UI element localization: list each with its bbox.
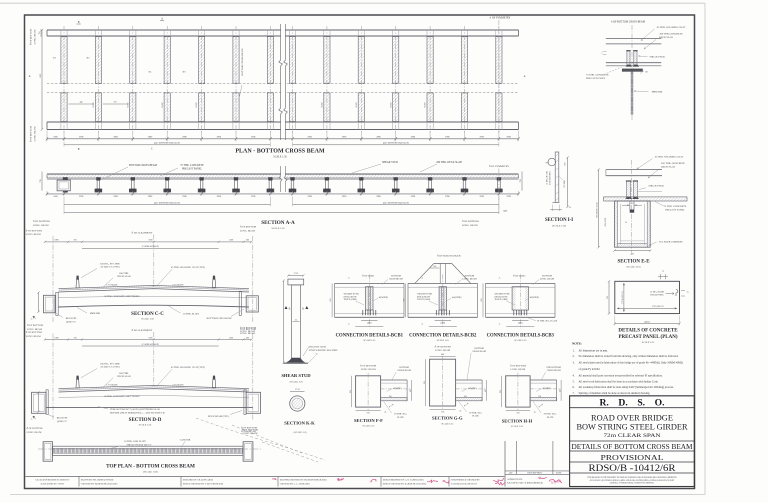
svg-text:SECTION I-I: SECTION I-I [545, 218, 573, 223]
svg-text:BOTTOM: BOTTOM [391, 275, 401, 277]
svg-text:PRECAST PANEL: PRECAST PANEL [665, 209, 685, 212]
section B-B: stud top caps [626, 50, 630, 52]
section A-A: left vertical dimension 750 [41, 172, 43, 191]
svg-text:75: 75 [662, 271, 664, 273]
title block frame [570, 396, 695, 487]
connection BCB1: left rotated dim [331, 283, 333, 317]
svg-text:15: 15 [625, 222, 627, 224]
section E-E: bottom dimension [615, 250, 651, 252]
section F-F: right dim [411, 380, 413, 401]
section A-A: break lines [279, 166, 282, 192]
plan view: small dims between ribs [69, 103, 94, 105]
svg-text:1500: 1500 [229, 337, 233, 339]
svg-text:SCALE 1:25: SCALE 1:25 [642, 341, 655, 344]
plan view: left vertical dimension [41, 30, 43, 130]
svg-text:750: 750 [516, 413, 519, 415]
svg-text:SHEAR STUD: SHEAR STUD [281, 373, 311, 378]
svg-text:BOTTOM: BOTTOM [399, 367, 408, 369]
section G-G: right dim [486, 380, 488, 401]
svg-text:AT 3000 C/C (TYP.): AT 3000 C/C (TYP.) [100, 366, 120, 369]
shear stud: head [288, 279, 304, 285]
svg-text:SHEAR STUD: SHEAR STUD [648, 185, 664, 188]
svg-text:65 THK. WEARING COAT: 65 THK. WEARING COAT [655, 156, 684, 159]
plan view: left band dimension 750 [40, 29, 42, 37]
svg-text:SECTION A-A: SECTION A-A [261, 220, 295, 226]
svg-text:BOTTOM LONG BEAM: BOTTOM LONG BEAM [207, 317, 233, 320]
svg-text:600(OUT): 600(OUT) [604, 217, 607, 226]
svg-text:BCB2: BCB2 [127, 102, 129, 107]
svg-text:DESCRIPTION: DESCRIPTION [527, 473, 542, 475]
section F-F: bottom dims [356, 410, 381, 412]
svg-text:BCB2: BCB2 [356, 102, 358, 107]
section C-C: wearing coat band [59, 285, 250, 290]
svg-text:BEAN PIN: BEAN PIN [57, 417, 68, 420]
section D-D: left height dim and A marker [38, 393, 40, 412]
svg-text:BEAN PIN: BEAN PIN [66, 317, 77, 320]
section F-F: left dim [351, 376, 353, 407]
section E-E: tube box outer [615, 201, 651, 247]
section A-A: left end cross beam box [63, 177, 68, 180]
svg-text:DATE: DATE [556, 472, 562, 475]
section G-G: bottom dims [430, 409, 456, 411]
svg-text:40(WIDE): 40(WIDE) [468, 387, 477, 390]
section E-E: precast panel band [604, 197, 687, 201]
svg-text:ℏ OF BOTTOM: ℏ OF BOTTOM [33, 219, 50, 223]
section C-C: centerlines of long beams [52, 236, 54, 322]
svg-text:ℏ OF BOTTOM: ℏ OF BOTTOM [240, 226, 257, 229]
connection BCB3: centerline [519, 274, 521, 328]
svg-text:4347 (DIVIDED EQUALLY): 4347 (DIVIDED EQUALLY) [154, 202, 180, 205]
svg-text:25: 25 [295, 319, 297, 321]
svg-text:ℏ OF BCB3: ℏ OF BCB3 [513, 273, 526, 277]
svg-text:BOTTOM LINE IS HORIZONTAL) — (: BOTTOM LINE IS HORIZONTAL) — (SEE SECTIO… [110, 411, 165, 414]
connection BCB1: beam band [335, 282, 404, 284]
svg-text:450: 450 [433, 266, 436, 268]
section I-I: lifting hook loop [548, 158, 556, 166]
top plan: centerline [38, 448, 262, 450]
svg-text:ℏ OF SYMMETRY: ℏ OF SYMMETRY [489, 164, 509, 168]
section B-B: web rib [630, 71, 632, 115]
svg-text:No dimension shall be scaled f: No dimension shall be scaled from this d… [579, 355, 679, 358]
svg-text:8MM RIB: 8MM RIB [90, 312, 100, 315]
section H-H: attached cross beam [530, 379, 557, 381]
svg-text:ROAD OVER BRIDGE: ROAD OVER BRIDGE [591, 413, 673, 422]
svg-text:PLAN - BOTTOM CROSS BEAM: PLAN - BOTTOM CROSS BEAM [235, 149, 325, 155]
svg-text:17.10: 17.10 [293, 273, 298, 275]
svg-text:SECTION G-G: SECTION G-G [432, 416, 463, 421]
svg-text:AT 3000 C/C (TYP.): AT 3000 C/C (TYP.) [100, 266, 120, 269]
svg-text:35: 35 [316, 354, 318, 356]
svg-text:B: B [78, 21, 80, 24]
precast panel: inner vertical dim [623, 283, 625, 312]
svg-text:BCB2: BCB2 [196, 102, 198, 107]
precast panel: top small dim [660, 274, 662, 279]
svg-text:SCRUTINISED & CHECKED BY: SCRUTINISED & CHECKED BY [451, 479, 480, 481]
top plan: main bar with stud texture [53, 446, 244, 455]
section E-E: center web stub [629, 201, 631, 210]
svg-text:25: 25 [631, 203, 633, 205]
svg-text:(SCALE 1:10): (SCALE 1:10) [626, 266, 640, 269]
connection BCB2: center element [439, 287, 446, 310]
svg-text:ℏ OF BCB1: ℏ OF BCB1 [362, 273, 375, 277]
svg-text:CALCULATION REGISTER NO. DESIG: CALCULATION REGISTER NO. DESIGN/CT [35, 478, 70, 481]
svg-text:TUBE SECTION OF T (ARCH) (SHUT: TUBE SECTION OF T (ARCH) (SHUTTERING SLA… [110, 408, 160, 411]
svg-text:SCALE 1:25: SCALE 1:25 [511, 425, 524, 428]
svg-text:FOR LIFTING: FOR LIFTING [550, 171, 552, 185]
svg-text:750: 750 [73, 337, 76, 339]
svg-text:65 THK. WEARING COAT: 65 THK. WEARING COAT [657, 26, 686, 29]
svg-text:BCB2: BCB2 [322, 102, 324, 107]
svg-text:900: 900 [500, 390, 502, 393]
shear stud: stem [292, 285, 301, 358]
svg-text:K: K [302, 308, 304, 311]
svg-text:ℏ OF BOTTOM: ℏ OF BOTTOM [242, 429, 259, 432]
svg-text:150: 150 [389, 396, 392, 398]
svg-text:DECK SLAB: DECK SLAB [117, 375, 131, 378]
connection BCB3: bolts [513, 310, 515, 315]
connection BCB1: centerline [368, 274, 370, 328]
svg-text:R. D. S. O.: R. D. S. O. [599, 397, 664, 408]
svg-text:SHEAR STUD: SHEAR STUD [382, 161, 398, 164]
svg-text:SCALE 1:50: SCALE 1:50 [139, 424, 152, 427]
svg-text:(400): (400) [441, 322, 446, 325]
plan view: rib ticks across bands [60, 30, 62, 36]
svg-text:C: C [151, 148, 153, 151]
svg-text:LONG. BEAM: LONG. BEAM [26, 233, 42, 236]
svg-text:ℏ OF BOTTOM: ℏ OF BOTTOM [240, 328, 257, 331]
svg-text:(SCALE 1:2): (SCALE 1:2) [290, 380, 303, 383]
svg-text:4347 (DIVIDED EQUALLY): 4347 (DIVIDED EQUALLY) [154, 142, 180, 145]
svg-text:CHECKED BY: MAHESH PRASAD (SS: CHECKED BY: MAHESH PRASAD (SSE) [81, 482, 118, 485]
svg-text:40(WIDE): 40(WIDE) [452, 296, 462, 299]
svg-text:(400): (400) [518, 322, 523, 325]
svg-text:A: A [348, 277, 350, 280]
precast panel: left dim [608, 281, 610, 313]
svg-text:STUD WELDING MACHINE: STUD WELDING MACHINE [309, 349, 338, 352]
svg-text:20 THK. SEA.: 20 THK. SEA. [394, 413, 407, 416]
section B-B: shear stud bars [627, 51, 630, 66]
svg-text:B: B [78, 148, 80, 151]
svg-text:A: A [499, 322, 501, 325]
svg-text:(SCALE 1:2): (SCALE 1:2) [294, 431, 307, 434]
svg-text:(CARRIAGEWAY): (CARRIAGEWAY) [142, 245, 160, 248]
svg-text:100 THK: 100 THK [564, 180, 566, 188]
section D-D: railing posts [76, 379, 79, 388]
svg-text:S.S.BARUAH DE/ADE TECH: S.S.BARUAH DE/ADE TECH [451, 482, 477, 485]
connection BCB2: bolts [435, 310, 437, 315]
svg-text:B.K.GUPTA FOR CE (B&S) (BRIDGE: B.K.GUPTA FOR CE (B&S) (BRIDGE) [507, 481, 543, 484]
section B-B: top flange of rib beam [622, 69, 642, 72]
svg-text:(4625): (4625) [644, 320, 650, 323]
shear stud: left dim line [283, 281, 285, 363]
section E-E: shear stud bars [627, 181, 631, 197]
svg-text:40(WIDE): 40(WIDE) [379, 296, 389, 299]
svg-text:200: 200 [246, 337, 249, 339]
svg-text:3.: 3. [573, 361, 575, 364]
connection BCB3: bottom dims [512, 320, 528, 322]
svg-text:35: 35 [569, 207, 571, 209]
svg-text:40(WIDE): 40(WIDE) [542, 387, 551, 390]
svg-text:65 THK. WEARING COAT (TYP.): 65 THK. WEARING COAT (TYP.) [171, 266, 205, 269]
section H-H: left dim [501, 376, 503, 407]
section K-K: top dimension [290, 391, 305, 393]
svg-text:50 THK. CONCRETE SHUTTERING: 50 THK. CONCRETE SHUTTERING [104, 296, 140, 298]
svg-text:1900: 1900 [54, 337, 58, 339]
signature strip frame [26, 476, 505, 478]
svg-text:of grade Fy 410/02.: of grade Fy 410/02. [579, 368, 601, 371]
svg-text:TORCH (ARM): TORCH (ARM) [417, 298, 430, 301]
svg-text:GASR RIB: GASR RIB [180, 438, 191, 441]
section I-I: hanger bar [555, 152, 559, 202]
svg-text:END BOTTOM: END BOTTOM [546, 367, 560, 369]
svg-text:PROVISIONAL: PROVISIONAL [601, 454, 664, 462]
svg-text:@500 C/C: @500 C/C [66, 322, 76, 324]
svg-text:LONG. BEAM: LONG. BEAM [462, 224, 478, 227]
svg-text:440: 440 [80, 102, 83, 104]
section E-E: stud top caps [626, 180, 631, 182]
section C-C: left height dim and A marker [38, 293, 40, 312]
svg-text:RDSO/B -10412/6R: RDSO/B -10412/6R [589, 463, 677, 474]
section A-A: break gap [281, 164, 285, 193]
section C-C: railing posts [76, 279, 79, 288]
svg-text:150: 150 [538, 396, 541, 398]
section B-B: centerline [631, 25, 633, 120]
svg-text:6.: 6. [573, 386, 575, 389]
precast panel: inner horizontal dim [617, 307, 677, 309]
svg-text:425: 425 [485, 389, 487, 392]
svg-text:20 THK. SEA.: 20 THK. SEA. [544, 413, 557, 416]
svg-text:(770) 500 C/C: (770) 500 C/C [652, 305, 665, 308]
svg-text:LONG. BEAM: LONG. BEAM [27, 431, 43, 434]
section E-E: tube box wall lines and hatch [615, 201, 618, 247]
section H-H: bottom dims [506, 410, 530, 412]
connection BCB3: beam band [486, 282, 556, 284]
svg-text:SCALE 1:25: SCALE 1:25 [437, 339, 450, 342]
section H-H: right dim [560, 380, 562, 401]
svg-text:(770 & 500 C/C): (770 & 500 C/C) [621, 291, 624, 304]
svg-text:BOTTOM: BOTTOM [465, 275, 475, 277]
svg-text:CONNECTION DETAILS-BCB3: CONNECTION DETAILS-BCB3 [487, 333, 555, 338]
svg-text:1900: 1900 [54, 240, 58, 242]
svg-text:DESIGNED BY: S.K.GUPTA (JED): DESIGNED BY: S.K.GUPTA (JED) [183, 478, 213, 481]
svg-text:DESIGN CHECKED BY: RAJESH PRA: DESIGN CHECKED BY: RAJESH PRASAD (SSE) [383, 482, 427, 485]
svg-text:DESIGN CHECKED BY: T. DES V.K: DESIGN CHECKED BY: T. DES V.KESH (DD) [183, 482, 224, 485]
svg-text:OF RAILWAY) (LUCKNOW) (INDIA).: OF RAILWAY) (LUCKNOW) (INDIA). (MILL AND… [590, 479, 675, 482]
svg-text:A: A [29, 75, 31, 78]
svg-text:10 THK. ASBL PLATE: 10 THK. ASBL PLATE [124, 440, 146, 443]
plan view: bottom long beam band [47, 121, 519, 123]
svg-text:MAIN BEAM: MAIN BEAM [389, 278, 402, 281]
svg-text:A: A [421, 322, 423, 325]
svg-text:BCB2: BCB2 [390, 102, 392, 107]
plan view: cross-beam ribs (BCB posts) [61, 26, 67, 133]
svg-text:10 THK. PLATE: 10 THK. PLATE [183, 312, 200, 315]
top plan: left end block [43, 442, 52, 462]
pink signature marks [272, 478, 276, 479]
svg-text:260 THK. DECK SLAB: 260 THK. DECK SLAB [436, 161, 462, 164]
svg-text:A: A [499, 277, 501, 280]
svg-text:A: A [161, 18, 163, 21]
svg-text:@500 C/C: @500 C/C [57, 421, 67, 423]
svg-text:40(WIDE): 40(WIDE) [393, 387, 402, 390]
svg-text:CROSS BEAM: CROSS BEAM [472, 350, 486, 353]
connection BCB2: beam band [408, 282, 478, 284]
svg-text:DRAWN BY: M/S ABHINAV TIWARI: DRAWN BY: M/S ABHINAV TIWARI [81, 478, 114, 481]
svg-text:GENERAL. WITHOUT RDSO, CONSENT: GENERAL. WITHOUT RDSO, CONSENT TO PRINTE… [610, 482, 655, 485]
svg-text:A: A [31, 317, 33, 320]
svg-text:LONG. BEAM: LONG. BEAM [26, 335, 42, 338]
section G-G: main box [430, 359, 456, 406]
section A-A: dimension rows [47, 193, 519, 195]
section K-K: stud circle [290, 396, 305, 411]
svg-text:SECTION E-E: SECTION E-E [617, 260, 650, 265]
svg-text:LONG. BEAM: LONG. BEAM [361, 368, 377, 371]
svg-text:THIS DRAWING IS THE PROPERTY O: THIS DRAWING IS THE PROPERTY OF RESEARCH… [587, 476, 677, 479]
section D-D: wearing coat band [59, 385, 250, 390]
svg-text:1500: 1500 [229, 240, 233, 242]
section I-I: bottom ticks [552, 201, 559, 203]
svg-text:750: 750 [114, 102, 117, 104]
svg-text:750: 750 [40, 179, 42, 182]
section H-H: main box [506, 376, 530, 407]
svg-text:1.: 1. [573, 350, 575, 353]
svg-text:K: K [289, 308, 291, 311]
svg-text:TORCH (ARM): TORCH (ARM) [344, 298, 357, 301]
svg-text:SCALE 1:25: SCALE 1:25 [363, 425, 376, 428]
svg-text:PRECAST PANEL: PRECAST PANEL [182, 167, 203, 170]
svg-text:TORCH (ARM): TORCH (ARM) [495, 298, 508, 301]
svg-text:ℏ OF BOTTOM: ℏ OF BOTTOM [30, 125, 33, 142]
svg-text:SCALE 1:25: SCALE 1:25 [514, 339, 527, 342]
svg-text:7500: 7500 [148, 240, 152, 242]
svg-text:ℏ OF ALIGNMENT: ℏ OF ALIGNMENT [132, 231, 153, 235]
svg-text:BOTTOM: BOTTOM [474, 348, 483, 350]
svg-text:Splicing of members shall be d: Splicing of members shall be done as sho… [579, 392, 651, 395]
section E-E: left dimensions [598, 170, 600, 248]
svg-text:750: 750 [367, 413, 370, 415]
svg-text:425: 425 [410, 389, 412, 392]
svg-text:1.7% SLOPE: 1.7% SLOPE [106, 385, 118, 387]
svg-text:DECK SLAB: DECK SLAB [117, 275, 131, 278]
svg-text:CONNECTION DETAILS-BCB1: CONNECTION DETAILS-BCB1 [336, 333, 404, 338]
plan view: divided-equally dimension row [64, 144, 270, 146]
svg-text:SECTION H-H: SECTION H-H [502, 418, 533, 423]
svg-text:BOTTOM CROSS BEAM: BOTTOM CROSS BEAM [129, 164, 158, 167]
svg-text:DRAWINGS REVISED BY: PRADEEP K: DRAWINGS REVISED BY: PRADEEP KUMAR (JED) [280, 478, 327, 481]
section A-A: deck slab band [47, 173, 519, 175]
svg-text:600: 600 [404, 299, 406, 302]
svg-text:(400): (400) [367, 322, 372, 325]
svg-text:8MM RIB: 8MM RIB [652, 91, 663, 94]
plan view: dimension row with ticks [47, 138, 519, 140]
section B-B: deck slab bottom and panel lines [606, 62, 662, 64]
svg-text:SECTION F-F: SECTION F-F [354, 418, 383, 423]
section D-D: centerlines of long beams [52, 334, 54, 420]
svg-text:4347 (DIVIDED EQUALLY): 4347 (DIVIDED EQUALLY) [383, 202, 409, 205]
svg-text:20 THK. SEA.: 20 THK. SEA. [469, 412, 482, 415]
svg-text:CROSS BEAM: CROSS BEAM [547, 369, 561, 372]
svg-text:500: 500 [607, 296, 609, 299]
svg-text:12 DIA. HOOK: 12 DIA. HOOK [650, 290, 664, 293]
svg-text:(HOLE) BLOW: (HOLE) BLOW [344, 295, 357, 298]
svg-text:600: 600 [481, 299, 483, 302]
section D-D: dashed leader diagonals [196, 418, 325, 460]
svg-text:BOTTOM: BOTTOM [542, 275, 552, 277]
svg-text:LONG. BEAM: LONG. BEAM [34, 126, 37, 142]
connection BCB1: bottom dims [361, 320, 377, 322]
svg-text:PLATE: PLATE [547, 416, 554, 419]
svg-text:A: A [348, 322, 350, 325]
precast panel: outline [615, 281, 680, 313]
svg-text:BOTTOM CROSS BEAM: BOTTOM CROSS BEAM [241, 48, 244, 76]
connection BCB3: left rotated dim [482, 283, 484, 317]
paper edge shadow [0, 2, 705, 4]
svg-text:600: 600 [330, 299, 332, 302]
svg-text:WELDED TO 8M.: WELDED TO 8M. [417, 294, 433, 296]
svg-text:ℏ OF BCB2/HANGER: ℏ OF BCB2/HANGER [437, 253, 461, 257]
notes underline [570, 395, 695, 397]
svg-text:A: A [524, 75, 526, 78]
svg-text:SHEAR STUD: SHEAR STUD [649, 56, 665, 59]
svg-text:PRECAST PANEL: PRECAST PANEL [586, 77, 606, 80]
connection BCB1: center element [366, 287, 373, 310]
section G-G: left dim [425, 359, 427, 406]
svg-text:75: 75 [687, 292, 689, 294]
svg-text:200: 200 [246, 240, 249, 242]
svg-text:SECTION K-K: SECTION K-K [284, 420, 315, 425]
svg-text:PLATE: PLATE [472, 415, 479, 418]
svg-text:All steel plates used in fabri: All steel plates used in fabrication of … [579, 361, 683, 364]
connection BCB2: centerline [442, 274, 444, 328]
shear stud: K section cut marks [285, 306, 288, 309]
svg-text:(CARRIAGEWAY): (CARRIAGEWAY) [142, 343, 160, 346]
section B-B: left small dims [603, 51, 607, 53]
section D-D: end blocks and plates [32, 392, 47, 413]
connection BCB2: left rotated dim [405, 283, 407, 317]
svg-text:150: 150 [464, 396, 467, 398]
svg-text:7: 7 [601, 53, 602, 55]
svg-text:DECK SLAB: DECK SLAB [661, 166, 675, 169]
shear stud: base line [284, 362, 309, 364]
svg-text:All material shall pass corros: All material shall pass corrosion test p… [579, 375, 663, 378]
svg-text:(SCALE 1:50): (SCALE 1:50) [143, 471, 158, 474]
section G-G: top width dim [430, 355, 456, 357]
shear stud: weld flare base [286, 358, 306, 363]
svg-text:LONG. BEAM: LONG. BEAM [240, 230, 256, 233]
svg-text:ℏ OF ALIGNMENT: ℏ OF ALIGNMENT [132, 328, 153, 332]
svg-text:EDGE BEAM (TYP.): EDGE BEAM (TYP.) [208, 415, 229, 418]
section A-A: cross beam posts [95, 177, 102, 192]
svg-text:ℏ OF BOTTOM: ℏ OF BOTTOM [462, 219, 479, 223]
svg-text:CONNECTION DETAILS-BCB2: CONNECTION DETAILS-BCB2 [409, 333, 477, 338]
svg-text:SCALE 1:50: SCALE 1:50 [272, 227, 286, 230]
svg-text:ℏ OF BOTTOM: ℏ OF BOTTOM [30, 28, 33, 45]
svg-text:750: 750 [73, 240, 76, 242]
svg-text:A: A [421, 277, 423, 280]
svg-text:ℏ OF BOTTOM: ℏ OF BOTTOM [26, 230, 43, 233]
svg-text:All workshop fabrication shall: All workshop fabrication shall be done u… [579, 386, 674, 389]
svg-text:65 THK. WEARING COAT (TYP.): 65 THK. WEARING COAT (TYP.) [171, 366, 205, 369]
svg-text:(SCALE 1:10): (SCALE 1:10) [552, 225, 566, 228]
svg-text:SCALE 1:50: SCALE 1:50 [273, 156, 287, 159]
svg-text:ℏ OF BOTTOM: ℏ OF BOTTOM [26, 331, 43, 334]
svg-text:LONG. BEAM: LONG. BEAM [33, 224, 49, 227]
svg-text:DETAILS OF BOTTOM CROSS BEAM: DETAILS OF BOTTOM CROSS BEAM [572, 442, 693, 451]
svg-text:400: 400 [441, 354, 444, 356]
svg-text:20 THK. SEA. PLATE: 20 THK. SEA. PLATE [537, 320, 558, 323]
svg-text:APPROVED BY:: APPROVED BY: [507, 478, 523, 481]
alterations table frame [504, 441, 506, 487]
